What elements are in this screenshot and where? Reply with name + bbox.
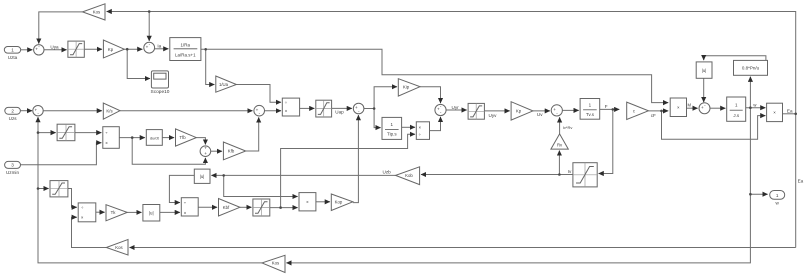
wire satF output to multF lower port xyxy=(270,207,298,209)
gain 1/Ua xyxy=(216,76,237,92)
svg-text:1: 1 xyxy=(11,48,14,53)
svg-text:Scope10: Scope10 xyxy=(151,89,170,95)
svg-text:Uyv: Uyv xyxy=(489,113,498,118)
svg-text:0.8*Pn/u: 0.8*Pn/u xyxy=(742,66,760,71)
wire S7 to block 1/Tv.s xyxy=(562,109,578,111)
svg-text:Kob: Kob xyxy=(405,173,413,178)
junction prodB output xyxy=(131,136,134,139)
inport 3 oval xyxy=(5,161,21,168)
wire Iv branch up into gain Rv bottom xyxy=(558,151,560,175)
wire sat3 output down into divE top port xyxy=(68,189,77,208)
svg-text:Kfb: Kfb xyxy=(228,149,235,154)
wire Tfb to sum SD top xyxy=(196,138,205,145)
svg-text:+: + xyxy=(204,146,207,151)
inport 1 oval xyxy=(4,47,20,54)
sum S3 xyxy=(33,106,43,116)
gain Kos2 bottom (left pointing) xyxy=(262,255,285,272)
wire gain Kop up into sum S5 bottom xyxy=(353,115,359,203)
wire prodD output up into sum S6 bottom xyxy=(430,117,441,131)
gain c xyxy=(627,102,649,119)
wire prodE to gain Kbf xyxy=(198,206,217,208)
wire SD to gain Kfb xyxy=(211,150,222,152)
junction Uzb line xyxy=(222,174,225,177)
sum S2 xyxy=(144,42,155,53)
gain Kp1 xyxy=(103,40,124,58)
svg-text:×: × xyxy=(285,109,288,114)
svg-text:|u|: |u| xyxy=(149,211,154,216)
gain Kip xyxy=(398,79,420,96)
wire mult2 output Ea to right rail xyxy=(783,113,796,115)
saturation satD xyxy=(468,103,484,119)
svg-text:|u|: |u| xyxy=(702,68,707,73)
wire 1/Tip.s to product prodD upper port xyxy=(402,126,415,128)
wire prodB output to du/dt xyxy=(119,137,145,139)
svg-text:Tfb: Tfb xyxy=(179,135,186,140)
wire divE to gain Tk xyxy=(96,211,105,213)
block 1/J.s xyxy=(727,97,746,121)
wire prodC to saturation satC xyxy=(300,107,315,109)
scope10 body xyxy=(151,71,168,88)
svg-text:Uzta: Uzta xyxy=(8,55,18,60)
svg-text:Tv.s: Tv.s xyxy=(586,112,595,117)
svg-text:Kp: Kp xyxy=(108,47,114,52)
gain Kfb xyxy=(223,142,245,160)
wire Ea top feedback vertical+horizontal into Kos xyxy=(107,12,796,248)
svg-text:1: 1 xyxy=(776,193,779,198)
wire in3 up into product prodB lower port xyxy=(21,143,102,165)
svg-text:Tip.s: Tip.s xyxy=(387,132,397,137)
wire satE output Iv line left into gain Kob xyxy=(421,174,573,176)
sum S6 xyxy=(435,104,446,115)
junction satF output xyxy=(279,206,282,209)
wire SR to block 1/J.s xyxy=(710,107,725,109)
junction S5 output xyxy=(373,107,376,110)
wire Kbf to saturation satF xyxy=(240,206,252,208)
product multF xyxy=(299,193,316,211)
wire gain 1/Ua output to product prodC top port xyxy=(236,85,281,103)
junction flux F xyxy=(612,108,615,111)
svg-text:La/Ra.s+1: La/Ra.s+1 xyxy=(175,52,196,57)
junction w output branch xyxy=(749,193,752,196)
gain K/s xyxy=(103,103,120,119)
wire absE output left down into prodE top port xyxy=(169,175,194,202)
gain KpD xyxy=(511,102,533,120)
inport 2 oval xyxy=(5,107,21,114)
svg-text:M: M xyxy=(687,103,691,108)
wire w feedback down right side and left along bottom into Kos2 xyxy=(286,108,750,263)
wire Tk to abs block absG xyxy=(127,211,141,213)
svg-text:w: w xyxy=(776,201,780,206)
svg-text:×: × xyxy=(773,110,776,115)
wire feedback branch right into saturation sat2 xyxy=(38,132,56,134)
wire Kp1 to sum S2 xyxy=(124,48,142,50)
sum S5 xyxy=(353,103,364,114)
wire cF branch down right and up into mult2 lower port xyxy=(662,111,766,139)
svg-text:1/Ua: 1/Ua xyxy=(219,82,229,87)
gain Kop xyxy=(331,194,353,211)
saturation sat1 xyxy=(68,41,84,57)
wire Kos1 output up into divE lower port xyxy=(72,217,107,247)
saturation sat3 xyxy=(50,181,68,197)
wire Kob output Uzb left into abs block absE xyxy=(211,174,395,176)
wire Kp1 branch down to Scope10 xyxy=(127,49,150,78)
svg-text:Kip: Kip xyxy=(403,84,410,89)
wire Uzb branch down and right into multF top port xyxy=(224,175,298,196)
svg-text:Uv: Uv xyxy=(537,112,543,117)
wire TF1 output to junction and down into gain 1/Ua xyxy=(201,49,215,84)
junction Ea rail xyxy=(794,113,797,116)
outport w oval xyxy=(770,191,785,200)
wire Ia long branch right to mult1 top input xyxy=(206,49,669,102)
wire multF to gain Kop xyxy=(316,201,330,203)
saturation satE xyxy=(573,163,597,187)
wire prodB bypass under du/dt up into sum SD bottom xyxy=(132,138,205,165)
svg-text:×: × xyxy=(105,141,108,146)
TF1 fraction line xyxy=(174,48,198,50)
abs block absG xyxy=(143,205,160,222)
transfer fcn TF1 xyxy=(170,38,201,61)
svg-text:|u|: |u| xyxy=(200,174,205,179)
svg-text:Rv: Rv xyxy=(557,143,563,148)
wire sat2 to product prodB top port xyxy=(75,132,102,134)
gain Rv (up pointing) xyxy=(551,134,568,149)
wire gain Rv up into sum S7 bottom xyxy=(559,117,561,134)
gain Kbf xyxy=(219,199,240,217)
wire S2 to transfer fcn 1/Ra xyxy=(155,48,169,50)
svg-text:J.s: J.s xyxy=(733,113,740,118)
svg-text:×: × xyxy=(81,215,84,220)
wire gain K/s to sum S4 xyxy=(120,110,253,112)
product prodB xyxy=(103,127,120,149)
svg-text:Kos: Kos xyxy=(272,261,279,266)
svg-text:Uzmin: Uzmin xyxy=(6,170,19,175)
wire mult1 to sum SR xyxy=(687,107,698,109)
junction top Ea branch xyxy=(148,10,151,13)
saturation sat2 xyxy=(57,124,75,141)
junction cF xyxy=(660,110,663,113)
gain Kob (left pointing) xyxy=(396,167,420,185)
wire Kos2 output left and up into sum S3 bottom xyxy=(38,117,262,263)
svg-text:×: × xyxy=(419,125,422,130)
sum SR xyxy=(699,103,710,114)
wire S4 to product prodC lower port xyxy=(265,110,282,112)
wire Ea bottom feedback into Kos1 xyxy=(130,247,796,249)
junction Iv line xyxy=(558,173,561,176)
wire Kip output down into sum S6 top xyxy=(420,87,441,103)
block du/dt xyxy=(146,130,162,146)
wire absG output to prodE lower port xyxy=(160,211,180,213)
junction Kp1 output xyxy=(126,48,129,51)
wire absH output down into sum SR top xyxy=(703,78,705,102)
wire satC to sum S5 label Uap xyxy=(332,107,352,109)
svg-text:cF: cF xyxy=(651,113,656,118)
svg-text:Ea: Ea xyxy=(787,109,793,114)
gain Tk xyxy=(106,205,127,221)
svg-text:Uya: Uya xyxy=(50,44,59,49)
wire 0.8Pn top output left down into abs absH top xyxy=(704,56,766,61)
product prodD xyxy=(416,122,429,140)
saturation satF xyxy=(253,199,270,216)
svg-text:Ea: Ea xyxy=(798,179,804,184)
wire sat1 to gain Kp1 xyxy=(84,48,102,50)
block 1/Tv.s xyxy=(580,99,600,120)
wire satD to gain KpD label Uyv xyxy=(484,110,509,112)
junction Ia after TF1 xyxy=(204,48,207,51)
sum S4 xyxy=(254,105,265,116)
svg-text:×: × xyxy=(677,105,680,110)
junction S3 feedback lower xyxy=(37,187,40,190)
svg-text:Iv*Rv: Iv*Rv xyxy=(563,125,573,130)
wire 1/Tv.s output to gain c label F xyxy=(600,108,620,110)
svg-text:Iv: Iv xyxy=(568,169,572,174)
svg-text:Uyr: Uyr xyxy=(452,105,460,110)
wire KpD to sum S7 label Uv xyxy=(533,110,550,112)
svg-text:w: w xyxy=(753,102,757,107)
svg-text:×: × xyxy=(306,200,309,205)
gain Kos1 bottom (left pointing) xyxy=(106,240,128,256)
wire S5 junction down into block 1/Tip.s xyxy=(374,109,381,128)
product divE xyxy=(78,203,96,222)
junction S3 feedback upper xyxy=(37,131,40,134)
svg-text:Kop: Kop xyxy=(335,199,343,204)
svg-text:1/Ra: 1/Ra xyxy=(181,42,191,47)
wire satF branch up and right into prodD lower port xyxy=(281,134,415,207)
svg-text:K/s: K/s xyxy=(106,108,112,113)
svg-text:Kbf: Kbf xyxy=(223,205,230,210)
junction w line xyxy=(749,106,752,109)
svg-text:2: 2 xyxy=(11,109,14,114)
wire Kos top output into sum S1 top xyxy=(39,12,83,44)
abs block absE xyxy=(194,169,210,183)
saturation satC xyxy=(316,100,332,117)
svg-text:Ia: Ia xyxy=(157,44,161,49)
svg-text:du/dt: du/dt xyxy=(150,135,160,140)
svg-text:3: 3 xyxy=(11,163,14,168)
svg-text:Uzb: Uzb xyxy=(383,169,392,174)
wire w junction up into block 0.8Pn bottom xyxy=(749,77,751,108)
svg-text:×: × xyxy=(184,210,187,215)
abs block absH xyxy=(696,62,712,78)
gain Tfb xyxy=(176,129,197,146)
wire S6 to saturation satD label Uyr xyxy=(446,109,467,111)
svg-text:Kos: Kos xyxy=(93,10,100,15)
wire 1/J.s output to mult2 top port label w xyxy=(746,107,766,109)
wire gain c output to mult1 lower port xyxy=(648,110,668,112)
svg-text:+: + xyxy=(204,151,207,156)
block 1/Tip.s xyxy=(382,117,402,139)
svg-text:Kos: Kos xyxy=(115,245,122,250)
svg-text:Tk: Tk xyxy=(111,210,117,215)
wire flux junction down and left into saturation satE right side xyxy=(599,109,613,173)
gain Kos top (left pointing) xyxy=(83,4,106,20)
wire in2 to sum S3 xyxy=(20,110,32,112)
product mult1 xyxy=(670,98,686,117)
wire feedback branch right into saturation sat3 xyxy=(38,188,49,190)
wire w junction to output oval w xyxy=(750,193,767,195)
svg-text:F: F xyxy=(605,104,608,109)
wire S1 to saturation sat1 xyxy=(44,49,67,51)
product prodE xyxy=(181,198,198,216)
wire S5 output junction up into gain Kip xyxy=(364,87,397,109)
wire S3 to gain K/s xyxy=(44,110,102,112)
product mult2 xyxy=(767,103,783,121)
sum SD xyxy=(200,146,211,157)
block 0.8Pn xyxy=(734,60,768,75)
sum S1 xyxy=(34,45,44,55)
sum S7 xyxy=(551,105,562,116)
svg-text:Kp: Kp xyxy=(516,109,522,114)
wire Ea branch down into sum S2 top xyxy=(148,12,150,41)
product prodC xyxy=(282,98,299,116)
wire in1 to S1 xyxy=(21,49,33,51)
svg-text:Uzs: Uzs xyxy=(9,116,18,121)
svg-text:Uap: Uap xyxy=(335,110,344,115)
wire du/dt to gain Tfb xyxy=(162,137,174,139)
wire Kfb up into sum S4 bottom xyxy=(246,117,259,151)
